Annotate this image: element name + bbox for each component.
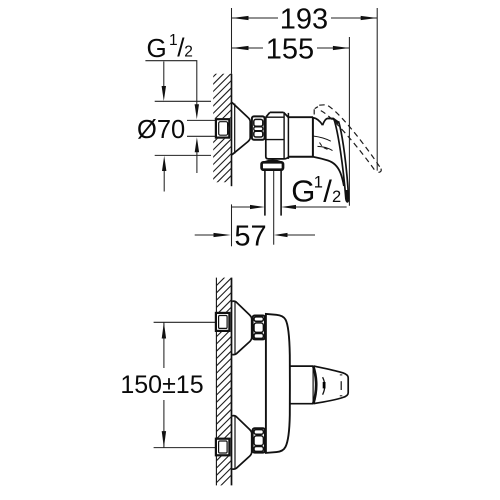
dimension line 193: [232, 17, 278, 19]
elbow body (top view): [266, 112, 289, 158]
dimension line 155: [232, 47, 263, 49]
Ø70 upper arrow shaft: [163, 62, 165, 87]
svg-text:2: 2: [332, 188, 341, 206]
handle blade (top view): [334, 118, 349, 202]
stub-bottom arrow (up): [195, 137, 199, 152]
handle dome + neck (top view): [313, 118, 334, 151]
extension/pipe line stub top: [187, 119, 216, 121]
cap inner arc + slot (bottom view): [323, 377, 325, 395]
svg-text:G: G: [291, 174, 315, 209]
dimension line 150±15 vertical: [163, 322, 165, 368]
extension line 155: [348, 37, 350, 206]
svg-text:57: 57: [234, 221, 266, 253]
outlet pipe (top view): [265, 170, 281, 216]
extension line 150 top: [154, 321, 216, 323]
handle blade tip fill: [345, 190, 349, 202]
svg-text:155: 155: [266, 33, 314, 65]
Ø70 lower arrow shaft: [163, 171, 165, 192]
svg-text:193: 193: [280, 4, 328, 36]
extension line wall (left, top dims): [231, 8, 233, 74]
top inlet stub (bottom view): [216, 313, 230, 331]
top escutcheon (bottom view): [232, 301, 252, 355]
extension line 150 bottom: [154, 447, 216, 449]
150 arrows: [162, 322, 166, 338]
wall band lines (bottom view): [215, 278, 217, 486]
main body (bottom view): [266, 314, 290, 453]
handle raised position (dashed, top view): [314, 105, 381, 173]
cap face details (bottom view): [340, 375, 343, 396]
hex nut (top view): [252, 116, 265, 139]
G1/2 underline + leader: [145, 61, 196, 105]
top hex nut (bottom view): [253, 316, 265, 340]
handle skirt (top view): [313, 157, 344, 186]
svg-text:150±15: 150±15: [120, 371, 203, 399]
inlet stub behind wall (top view): [216, 119, 229, 137]
svg-text:G: G: [147, 33, 167, 63]
extension line Ø70 top: [155, 100, 211, 102]
extension/pipe line stub bottom: [187, 135, 216, 137]
cartridge neck (bottom view): [290, 366, 314, 404]
leader-up arrow shaft (stub bottom): [196, 152, 198, 173]
arrowheads: [162, 16, 378, 448]
155 arrows: [232, 46, 249, 50]
Ø70 upper arrow (down): [162, 86, 166, 101]
Ø70 lower arrow (up): [162, 156, 166, 171]
pipe centerline / 57 extension: [273, 170, 275, 245]
wall face line (top view): [231, 74, 233, 186]
outlet collar (top view): [262, 160, 283, 169]
svg-text:Ø70: Ø70: [137, 116, 185, 144]
escutcheon (top view): [232, 102, 250, 154]
wall hatching (top view): [205, 50, 240, 202]
extension tick 57 at wall: [231, 204, 233, 246]
G1/2 leader arrow (down): [195, 104, 199, 119]
57 arrows: [214, 233, 231, 237]
G1/2 pipe arrows: [250, 205, 265, 209]
handle ring arc (bottom view): [313, 366, 316, 404]
bottom hex nut (bottom view): [253, 428, 265, 452]
cartridge sleeve (top view): [288, 113, 313, 159]
svg-text:1: 1: [314, 173, 323, 191]
hidden handle base (dashed V, top view): [320, 143, 330, 151]
svg-text:/: /: [323, 173, 332, 208]
extension line Ø70 bottom: [155, 154, 211, 156]
193 arrows: [232, 16, 249, 20]
extension line 193: [376, 8, 378, 171]
dimension line 57: [195, 234, 214, 236]
bottom escutcheon (bottom view): [232, 416, 252, 470]
wall hatching (bottom view): [210, 262, 240, 496]
svg-text:2: 2: [184, 44, 193, 61]
handle cap (bottom view): [313, 366, 348, 404]
dimension line G1/2 (pipe): [232, 206, 250, 208]
bottom inlet stub (bottom view): [216, 439, 230, 456]
